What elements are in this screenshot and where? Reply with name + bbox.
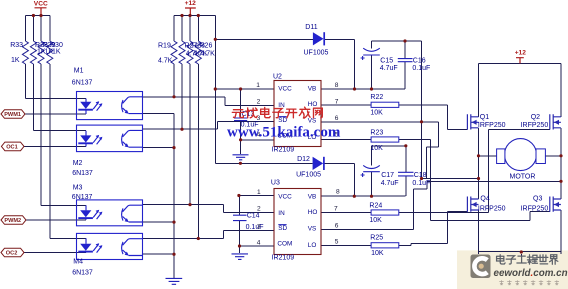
svg-text:HO: HO bbox=[308, 101, 318, 108]
svg-text:R23: R23 bbox=[370, 129, 383, 136]
svg-text:VCC: VCC bbox=[278, 85, 292, 92]
svg-text:0.1uF: 0.1uF bbox=[246, 224, 264, 231]
svg-text:HO: HO bbox=[308, 209, 318, 216]
svg-text:Q4: Q4 bbox=[480, 196, 489, 203]
svg-text:SD: SD bbox=[278, 225, 287, 232]
svg-text:2: 2 bbox=[257, 206, 261, 213]
svg-text:UF1005: UF1005 bbox=[304, 50, 329, 57]
svg-text:6N137: 6N137 bbox=[72, 80, 93, 87]
svg-text:C18: C18 bbox=[414, 172, 427, 179]
svg-text:10K: 10K bbox=[371, 250, 384, 257]
svg-text:4.7uF: 4.7uF bbox=[380, 65, 398, 72]
svg-text:COM: COM bbox=[277, 241, 292, 248]
svg-text:M3: M3 bbox=[73, 185, 83, 192]
svg-text:R24: R24 bbox=[369, 203, 382, 210]
svg-text:3: 3 bbox=[257, 224, 261, 231]
svg-text:1: 1 bbox=[257, 189, 261, 196]
svg-text:OC1: OC1 bbox=[6, 145, 18, 151]
svg-text:IN: IN bbox=[278, 210, 285, 217]
svg-text:SD: SD bbox=[278, 117, 287, 124]
svg-text:R25: R25 bbox=[370, 235, 383, 242]
svg-text:4.7K: 4.7K bbox=[158, 58, 173, 65]
svg-text:6N137: 6N137 bbox=[72, 270, 93, 277]
svg-text:IR2109: IR2109 bbox=[272, 147, 295, 154]
svg-text:OC2: OC2 bbox=[6, 251, 18, 257]
svg-text:VB: VB bbox=[308, 193, 317, 200]
svg-text:IRFP250: IRFP250 bbox=[521, 122, 549, 129]
svg-text:www.51kaifa.com: www.51kaifa.com bbox=[227, 125, 341, 141]
svg-text:7: 7 bbox=[335, 98, 339, 105]
svg-text:1K: 1K bbox=[52, 49, 61, 56]
svg-text:1K: 1K bbox=[11, 57, 20, 64]
svg-text:10K: 10K bbox=[370, 110, 383, 117]
svg-text:VS: VS bbox=[308, 117, 317, 124]
svg-text:1: 1 bbox=[256, 82, 260, 89]
svg-text:R33: R33 bbox=[10, 42, 23, 49]
svg-text:6N137: 6N137 bbox=[72, 170, 93, 177]
svg-text:Q3: Q3 bbox=[533, 196, 542, 203]
svg-text:7: 7 bbox=[334, 206, 338, 213]
svg-text:Q1: Q1 bbox=[480, 114, 489, 121]
svg-text:+12: +12 bbox=[515, 49, 527, 56]
svg-text:IRFP250: IRFP250 bbox=[478, 122, 506, 129]
svg-text:UF1005: UF1005 bbox=[296, 172, 321, 179]
svg-text:U3: U3 bbox=[271, 179, 280, 186]
svg-text:VCC: VCC bbox=[278, 193, 292, 200]
svg-text:MOTOR: MOTOR bbox=[510, 173, 536, 180]
svg-text:IRFP250: IRFP250 bbox=[521, 205, 549, 212]
svg-text:M1: M1 bbox=[74, 68, 84, 75]
svg-text:10K: 10K bbox=[369, 217, 382, 224]
svg-text:VCC: VCC bbox=[34, 1, 48, 8]
svg-text:C16: C16 bbox=[413, 58, 426, 65]
svg-text:LO: LO bbox=[308, 242, 317, 249]
svg-text:4.7uF: 4.7uF bbox=[381, 180, 399, 187]
svg-text:5: 5 bbox=[335, 239, 339, 246]
svg-text:0.1uF: 0.1uF bbox=[412, 65, 430, 72]
svg-text:4: 4 bbox=[257, 239, 261, 246]
svg-text:PWM2: PWM2 bbox=[4, 218, 21, 224]
svg-text:C14: C14 bbox=[247, 213, 260, 220]
svg-text:8: 8 bbox=[336, 188, 340, 195]
svg-text:IR2109: IR2109 bbox=[272, 255, 295, 262]
svg-text:U2: U2 bbox=[273, 74, 282, 81]
svg-text:6: 6 bbox=[335, 115, 339, 122]
svg-text:C15: C15 bbox=[380, 58, 393, 65]
svg-text:0.1uF: 0.1uF bbox=[412, 180, 430, 187]
svg-text:6: 6 bbox=[335, 222, 339, 229]
svg-text:VS: VS bbox=[308, 225, 317, 232]
svg-text:R22: R22 bbox=[370, 94, 383, 101]
svg-text:D11: D11 bbox=[305, 24, 317, 31]
svg-text:C17: C17 bbox=[381, 172, 394, 179]
svg-text:6N137: 6N137 bbox=[72, 194, 93, 201]
svg-text:PWM1: PWM1 bbox=[4, 112, 21, 118]
svg-text:M4: M4 bbox=[73, 259, 83, 266]
svg-text:2: 2 bbox=[257, 99, 261, 106]
svg-text:10K: 10K bbox=[370, 145, 383, 152]
svg-text:+12: +12 bbox=[185, 0, 197, 7]
svg-text:VB: VB bbox=[308, 85, 317, 92]
svg-text:4.7K: 4.7K bbox=[200, 51, 215, 58]
svg-text:R26: R26 bbox=[200, 43, 213, 50]
svg-text:D12: D12 bbox=[297, 156, 310, 163]
svg-text:R19: R19 bbox=[158, 43, 171, 50]
svg-text:8: 8 bbox=[335, 82, 339, 89]
svg-text:M2: M2 bbox=[73, 160, 83, 167]
svg-text:Q2: Q2 bbox=[531, 114, 540, 121]
svg-text:IRFP250: IRFP250 bbox=[478, 205, 506, 212]
svg-text:eeworld.com.cn: eeworld.com.cn bbox=[494, 268, 568, 279]
